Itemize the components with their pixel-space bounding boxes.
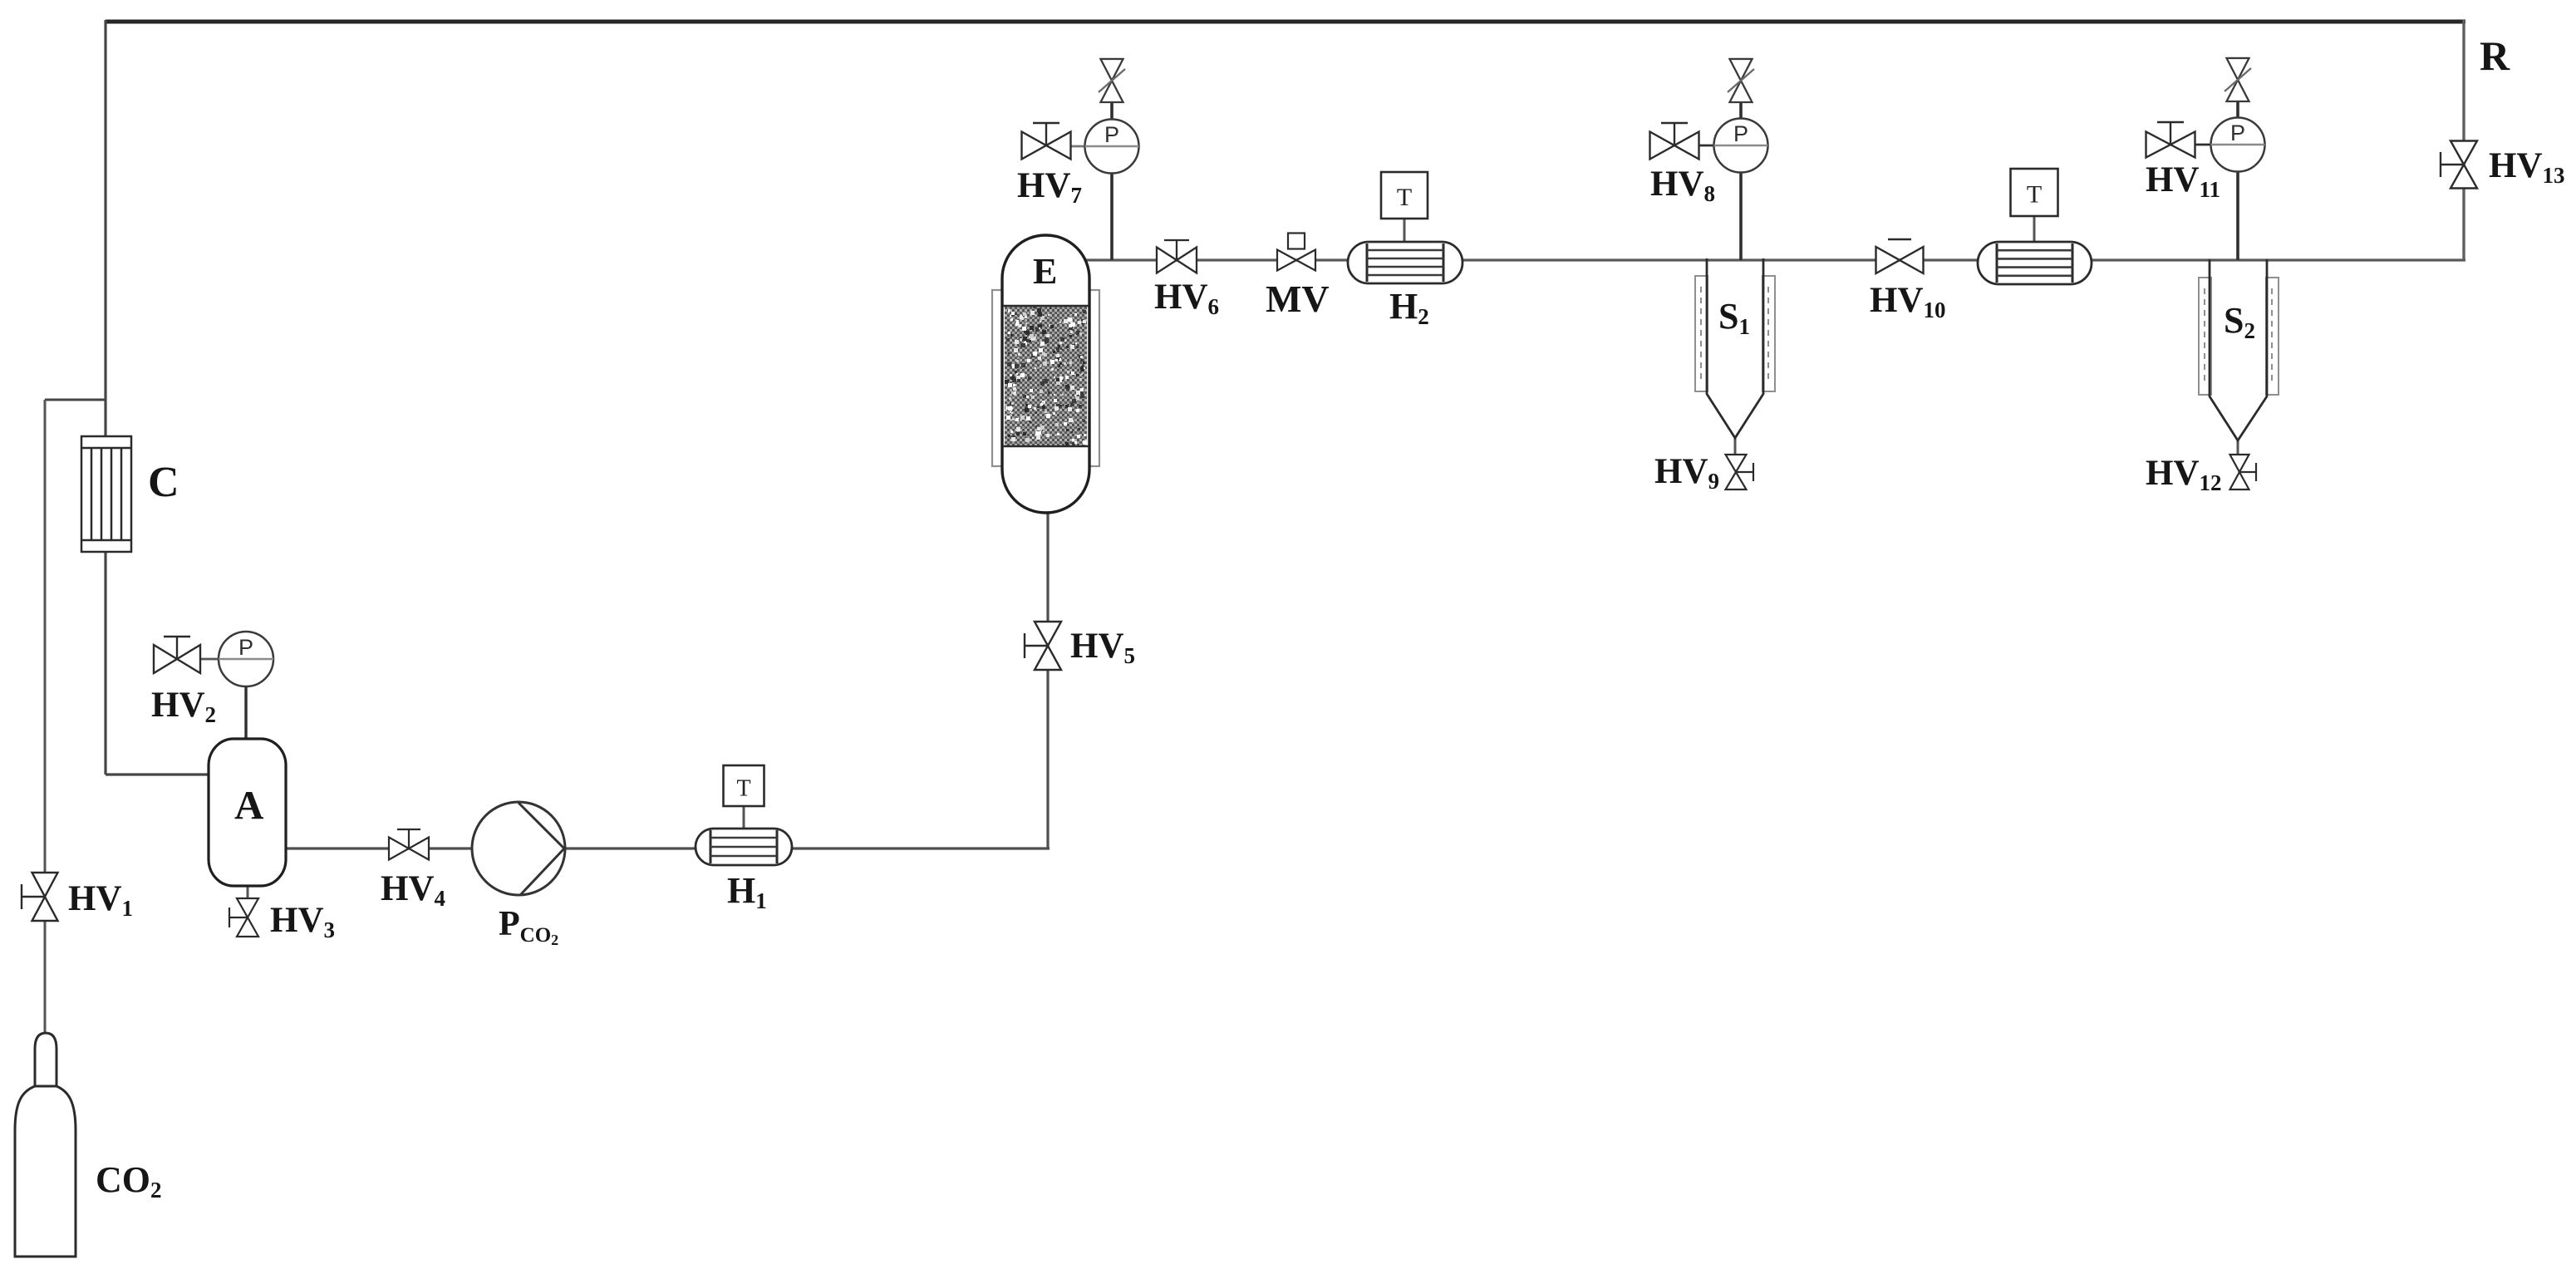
- CO2 cylinder: [15, 1033, 76, 1257]
- wire E gauge drop leg: [1110, 101, 1113, 260]
- valve HV6: [1157, 240, 1197, 273]
- wire H1 outlet run: [791, 847, 1050, 849]
- wire HV8 to S1 pressure gauge: [1698, 145, 1714, 147]
- wire gauge connection on A: [244, 686, 247, 739]
- svg-text:MV: MV: [1266, 278, 1330, 320]
- pressure gauge on A: [219, 632, 273, 686]
- wire HV7 to E pressure gauge: [1070, 145, 1086, 148]
- svg-text:A: A: [234, 782, 264, 828]
- wire S1 drain stub: [1734, 437, 1737, 456]
- svg-text:T: T: [736, 776, 750, 802]
- temperature indicator T on H1: [724, 765, 764, 806]
- wire A outlet to HV4: [286, 847, 473, 849]
- separator S1 jacket right: [1762, 276, 1775, 391]
- wire feed into accumulator A: [106, 773, 209, 775]
- wire CO2 supply tie-in: [45, 399, 106, 401]
- wire riser to extractor E: [1046, 512, 1049, 848]
- pressure gauge on E: [1085, 120, 1139, 174]
- svg-text:T: T: [1397, 184, 1412, 211]
- heat exchanger H3: [1978, 242, 2092, 284]
- temperature indicator T on H3: [2011, 169, 2058, 216]
- svg-text:R: R: [2480, 32, 2510, 79]
- separator S1 jacket left: [1695, 276, 1708, 391]
- relief valve above E gauge: [1099, 59, 1125, 102]
- svg-text:T: T: [2027, 181, 2042, 209]
- valve HV3: [229, 898, 258, 937]
- wire A drain stub: [247, 886, 249, 899]
- valve HV13: [2441, 141, 2477, 189]
- pressure gauge on S1: [1714, 119, 1768, 173]
- valve HV5: [1025, 622, 1061, 670]
- separator S2 jacket right: [2266, 278, 2279, 395]
- svg-text:P: P: [2230, 121, 2245, 145]
- svg-text:P: P: [1733, 121, 1748, 146]
- valve HV1: [22, 873, 58, 921]
- valve HV11: [2146, 122, 2195, 158]
- wire S1 gauge drop leg: [1739, 102, 1743, 260]
- relief valve above S2 gauge: [2225, 58, 2251, 101]
- extractor column E jacket right: [1089, 290, 1099, 466]
- valve HV10: [1876, 239, 1924, 273]
- separator S2 jacket left: [2199, 278, 2211, 395]
- heat exchanger H2: [1348, 242, 1463, 283]
- wire left recycle downcomer: [104, 20, 106, 775]
- separator vessel S2: [2210, 259, 2267, 440]
- accumulator vessel A: [209, 739, 286, 886]
- temperature indicator T on H2: [1381, 172, 1428, 219]
- wire T-sensor lead on H2: [1404, 218, 1406, 243]
- relief valve above S1 gauge: [1728, 59, 1754, 102]
- condenser C: [81, 436, 131, 552]
- wire pump discharge to H1: [564, 847, 696, 849]
- wire T-sensor lead on H1: [743, 805, 745, 829]
- extractor column E jacket left: [992, 290, 1002, 466]
- valve HV7: [1022, 123, 1071, 160]
- wire S2 gauge drop leg: [2236, 101, 2239, 260]
- wire HV11 to S2 pressure gauge: [2195, 144, 2211, 146]
- wire main product header: [1082, 258, 2465, 261]
- separator vessel S1: [1707, 258, 1763, 438]
- svg-text:C: C: [148, 459, 179, 506]
- wire CO2 riser upper: [44, 400, 47, 873]
- wire recycle header R (top): [106, 20, 2465, 24]
- wire HV13 riser: [2462, 20, 2465, 260]
- wire T-sensor lead on H3: [2033, 216, 2036, 243]
- valve HV12: [2230, 455, 2257, 489]
- valve HV9: [1726, 455, 1754, 489]
- valve HV8: [1650, 123, 1699, 160]
- micrometering valve MV: [1277, 234, 1315, 271]
- wire S2 drain stub: [2237, 440, 2239, 456]
- extractor E packed bed: [1003, 306, 1089, 446]
- wire HV2 to A pressure gauge: [200, 658, 220, 661]
- extractor column E vessel: [1002, 235, 1089, 513]
- pressure gauge on S2: [2211, 118, 2265, 172]
- wire CO2 riser lower (to cylinder): [44, 920, 47, 1033]
- valve HV4: [389, 829, 429, 860]
- svg-text:P: P: [1104, 122, 1119, 147]
- svg-text:E: E: [1033, 251, 1057, 292]
- valve HV2: [154, 637, 200, 673]
- svg-text:P: P: [238, 635, 253, 660]
- pump PCO2: [472, 802, 565, 895]
- heat exchanger H1: [696, 829, 792, 865]
